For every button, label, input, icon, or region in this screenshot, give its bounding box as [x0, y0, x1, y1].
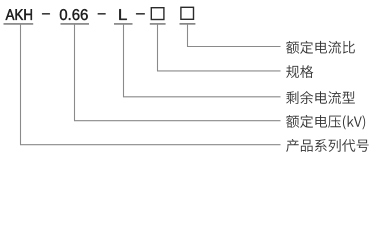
- underline bar 5: [180, 23, 196, 25]
- underline bar 2: [61, 23, 90, 25]
- vertical stem wire 1: [20, 24, 22, 145]
- label 产品系列代号: [286, 139, 369, 152]
- vertical stem wire 5: [187, 24, 189, 47]
- underline bar 4: [150, 23, 166, 25]
- separator dash 1: [42, 13, 50, 14]
- horizontal wire to 剩余电流型: [123, 96, 281, 98]
- horizontal wire to 额定电流比: [187, 46, 281, 48]
- underline bar 1: [4, 23, 34, 25]
- vertical stem wire 4: [157, 24, 159, 71]
- separator dash 3: [136, 13, 145, 14]
- horizontal wire to 产品系列代号: [20, 144, 281, 146]
- series code text AKH: [6, 9, 32, 20]
- vertical stem wire 2: [74, 24, 76, 121]
- placeholder box 2: [181, 7, 194, 19]
- vertical stem wire 3: [123, 24, 125, 97]
- horizontal wire to 规格: [157, 70, 281, 72]
- label 额定电压(kV): [286, 115, 365, 130]
- label 剩余电流型: [286, 91, 355, 104]
- type letter L: [119, 9, 126, 20]
- horizontal wire to 额定电压(kV): [74, 120, 281, 122]
- underline bar 3: [114, 23, 133, 25]
- separator dash 2: [98, 13, 106, 14]
- label 规格: [286, 65, 313, 78]
- voltage text 0.66: [60, 9, 88, 20]
- placeholder box 1: [151, 8, 164, 20]
- label 额定电流比: [286, 41, 355, 54]
